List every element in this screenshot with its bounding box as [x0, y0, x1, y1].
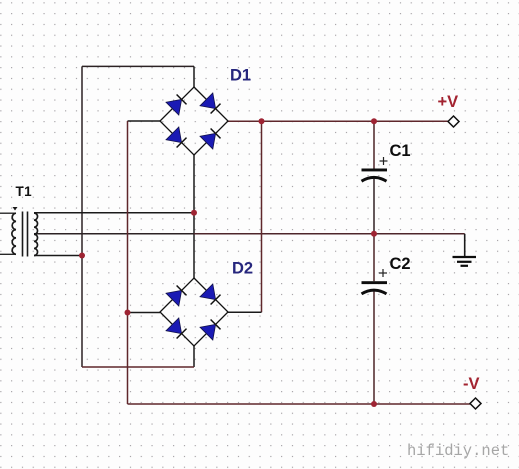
- wire: transformer mid tap / ground rail y=233.8: [34, 233, 194, 235]
- wire: D2 bottom pin down to y=367: [193, 346, 195, 367]
- svg-text:hifidiy.net: hifidiy.net: [407, 442, 509, 460]
- svg-text:D1: D1: [230, 67, 251, 85]
- wire: from C2 bottom to -V rail: [373, 291, 375, 405]
- bridge D1 diamond outline: [160, 87, 228, 155]
- junction dot at -V rail / cap chain: [371, 401, 377, 407]
- svg-text:D2: D2: [232, 260, 253, 278]
- primary bottom lead: [0, 253, 16, 255]
- terminal +V: [448, 116, 459, 127]
- wire: top-left loop horizontal y=66 from x=82 to x=194: [82, 65, 194, 67]
- wire: D1 top pin vertical x=194 from y=66 to diamond top: [193, 66, 195, 87]
- diode D1d (bottom->right): [200, 129, 221, 150]
- diode D1a (left->top): [166, 95, 187, 116]
- capacitor C1: [362, 157, 388, 181]
- wire: vertical x=194 from D1 bottom vertex to D2 top vertex: [193, 155, 195, 278]
- junction dot at +V rail / cap chain: [371, 118, 377, 124]
- diode D2a (left->top): [166, 286, 187, 307]
- junction dot at D2 left / x=127.5: [125, 310, 131, 316]
- wire: transformer bottom tap y=255.5 to x=82: [34, 255, 82, 257]
- wire: left loop vertical x=82 from y=66 to y=367: [81, 66, 83, 367]
- svg-text:T1: T1: [16, 184, 33, 199]
- C2 curved bottom plate: [362, 290, 387, 294]
- polarity mark: [13, 207, 18, 211]
- terminal -V: [470, 398, 481, 409]
- svg-text:C2: C2: [390, 255, 411, 273]
- ground symbol: [453, 234, 477, 266]
- primary top lead: [0, 212, 16, 214]
- diode D2c (left->bottom): [166, 318, 187, 339]
- wire: vertical x=261.5 from +V rail down to y=312.5: [261, 121, 263, 312]
- C1 top plate: [362, 169, 388, 172]
- capacitor C2: [362, 269, 388, 294]
- junction dot at +V rail / x=261.5: [259, 118, 265, 124]
- diode D2b (top->right): [200, 284, 221, 305]
- C1 curved bottom plate: [362, 177, 387, 181]
- primary winding: [12, 213, 16, 254]
- diode D1c (left->bottom): [166, 127, 187, 148]
- C2 plus sign: [379, 272, 387, 274]
- wire: vertical x=127.5 from y=121 to y=404: [127, 121, 129, 404]
- C1 plus sign: [380, 160, 388, 162]
- secondary winding: [34, 213, 38, 256]
- C2 top plate: [362, 281, 388, 284]
- junction dot at bottom tap / x=82: [79, 253, 85, 259]
- diode D1b (top->right): [200, 93, 221, 114]
- diode D2d (bottom->right): [200, 320, 221, 341]
- transformer T1: [0, 207, 38, 257]
- core bar right: [27, 212, 29, 257]
- junction dot at top tap / x=194: [191, 210, 197, 216]
- svg-text:+V: +V: [438, 93, 459, 111]
- wire: from ground rail to C2 top: [373, 234, 375, 281]
- junction dot at ground rail / cap chain: [371, 231, 377, 237]
- wire: D1 left pin to x=127.5: [128, 120, 161, 122]
- bridge D2 diamond outline: [160, 278, 228, 346]
- wire: D2 left pin to x=127.5: [128, 312, 161, 314]
- svg-text:C1: C1: [390, 142, 411, 160]
- wire: +V rail y=121.5 from D1 right vertex to terminal: [228, 120, 448, 122]
- wire: transformer top tap y=212.5 to x=194: [34, 212, 194, 214]
- wire: bottom horizontal y=367 from x=82 to x=194: [82, 366, 194, 368]
- wire: D2 right pin to x=261.5: [228, 311, 262, 313]
- wire: -V rail y=404 from x=127.5 to terminal: [128, 403, 471, 405]
- wire: from C1 bottom to ground rail: [373, 178, 375, 234]
- svg-text:-V: -V: [463, 375, 480, 393]
- wire: capacitor chain vertical x=374 from +V rail to C1: [373, 121, 375, 168]
- core bar left: [22, 212, 24, 257]
